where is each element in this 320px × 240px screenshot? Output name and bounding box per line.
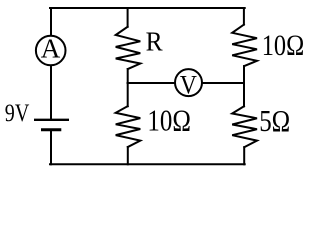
svg-text:V: V (180, 70, 197, 99)
wire right branch bottom (243, 147, 245, 164)
wire right branch top (243, 8, 245, 25)
svg-text:10Ω: 10Ω (147, 102, 191, 137)
wire bottom rail (50, 163, 245, 165)
wire left branch lower (50, 131, 52, 164)
wire right branch mid (243, 66, 245, 106)
wire left branch middle (50, 66, 52, 119)
resistor 10ohm middle (116, 106, 141, 147)
battery B1 positive long plate (35, 119, 68, 121)
resistor 5ohm bottom right (232, 106, 257, 147)
resistor R (116, 27, 141, 69)
wire middle branch bottom (127, 147, 129, 164)
wire voltmeter left (128, 82, 176, 84)
voltmeter V1 (175, 69, 202, 96)
resistor 10ohm top right (232, 25, 257, 67)
svg-text:9V: 9V (5, 100, 30, 127)
wire middle branch mid with node to voltmeter (127, 69, 129, 106)
ammeter A1 (36, 36, 66, 66)
wire voltmeter right (202, 82, 244, 84)
svg-text:R: R (146, 25, 164, 56)
wire top rail (50, 7, 245, 9)
svg-text:5Ω: 5Ω (259, 103, 290, 138)
svg-text:A: A (41, 34, 61, 64)
battery B1 negative short plate (43, 128, 60, 131)
svg-text:10Ω: 10Ω (262, 30, 305, 62)
wire middle branch top (127, 8, 129, 27)
wire left branch upper (50, 8, 52, 35)
